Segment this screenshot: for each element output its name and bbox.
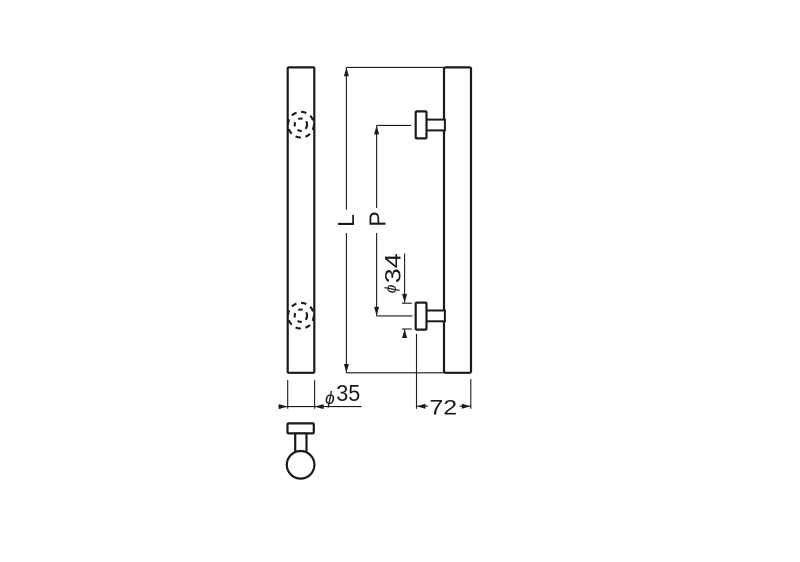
L arrow up bbox=[344, 67, 349, 76]
72 arrow right bbox=[462, 404, 471, 409]
72 dimension line right stub bbox=[460, 405, 471, 407]
72 dimension line left stub bbox=[417, 405, 429, 407]
P arrow up bbox=[374, 125, 379, 134]
handle bar side view bbox=[444, 67, 471, 372]
phi35 arrow left (outside right) bbox=[315, 404, 324, 409]
phi34 tick bottom bbox=[402, 328, 412, 330]
phi35 extension line right bbox=[314, 380, 316, 409]
knob detail ball bbox=[287, 451, 315, 479]
bottom post stem bbox=[426, 311, 445, 322]
P dimension leader bottom bbox=[377, 315, 413, 317]
svg-text:ɸ: ɸ bbox=[325, 388, 335, 408]
L dimension line bbox=[345, 67, 347, 209]
P dimension leader top bbox=[377, 124, 412, 126]
svg-text:ɸ: ɸ bbox=[383, 284, 400, 293]
phi35 extension line left bbox=[287, 380, 289, 409]
mounting hole bottom (dashed circles) bbox=[288, 303, 314, 329]
handle bar front view bbox=[288, 67, 315, 372]
svg-text:P: P bbox=[364, 211, 390, 226]
mounting hole top (dashed circles) bbox=[288, 112, 314, 138]
P arrow down bbox=[374, 307, 379, 316]
knob detail flange bbox=[288, 423, 314, 433]
phi34 arrow down bbox=[402, 294, 407, 303]
knob detail stem bbox=[295, 433, 306, 454]
svg-text:35: 35 bbox=[336, 380, 360, 406]
phi35 dimension line bbox=[278, 406, 361, 408]
svg-text:L: L bbox=[333, 214, 359, 227]
72 extension line left bbox=[416, 334, 418, 409]
phi34 arrow up bbox=[402, 329, 407, 338]
72 arrow left bbox=[417, 404, 426, 409]
svg-text:72: 72 bbox=[429, 396, 457, 420]
phi34 tick top bbox=[402, 302, 412, 304]
bottom post flange bbox=[416, 303, 427, 330]
svg-text:34: 34 bbox=[380, 253, 405, 283]
top post flange bbox=[416, 111, 427, 138]
phi34 dimension line lower bbox=[404, 329, 406, 338]
phi35 arrow right (outside left) bbox=[279, 404, 288, 409]
72 extension line right bbox=[470, 379, 472, 409]
L arrow down bbox=[344, 364, 349, 373]
L dimension leader bottom bbox=[346, 372, 443, 374]
P dimension line bbox=[376, 125, 378, 208]
phi34 dimension line upper bbox=[404, 254, 406, 303]
top post stem bbox=[426, 120, 445, 131]
L dimension leader top bbox=[346, 66, 443, 68]
